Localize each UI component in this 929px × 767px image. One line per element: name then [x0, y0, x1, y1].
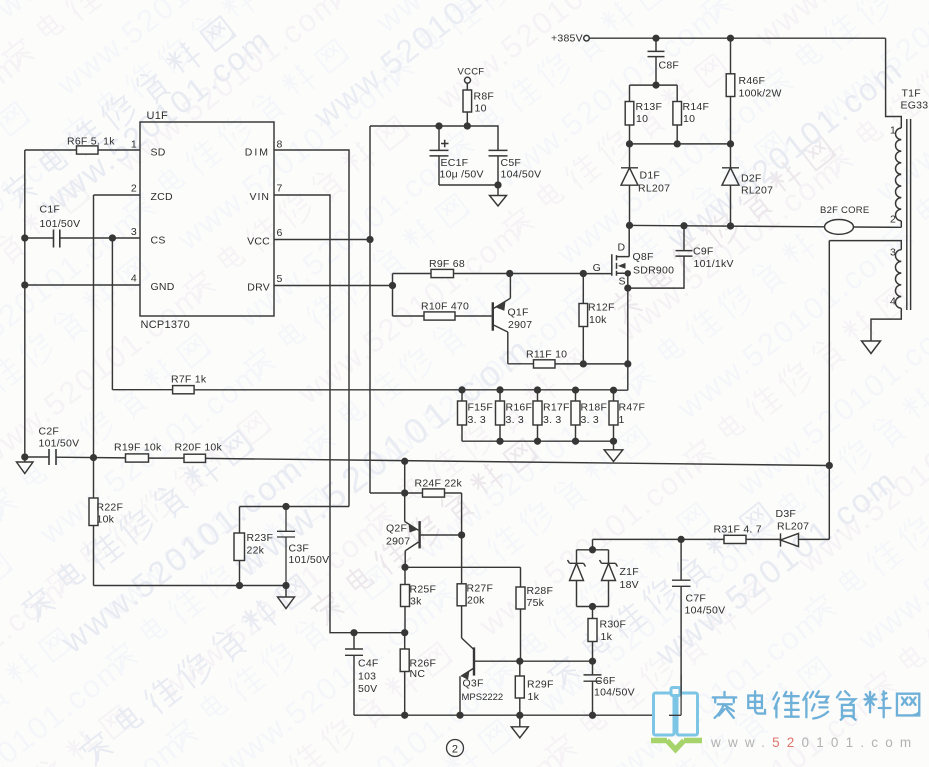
resistor R6F [77, 146, 99, 154]
IC U1F NCP1370 [140, 122, 274, 316]
resistor R11F [534, 360, 556, 368]
node drain [627, 223, 633, 229]
ground below secondary [862, 341, 881, 354]
svg-text:RL207: RL207 [777, 521, 809, 533]
svg-text:EG33: EG33 [901, 100, 929, 112]
node VCC [367, 237, 373, 243]
node R12F top [580, 271, 586, 277]
svg-text:GND: GND [151, 281, 175, 293]
svg-text:DRV: DRV [247, 282, 270, 294]
capacitor C5F [489, 150, 508, 185]
svg-text:2907: 2907 [386, 536, 410, 548]
svg-text:7: 7 [277, 183, 283, 195]
node sense line right end [826, 463, 832, 469]
svg-text:G: G [593, 262, 601, 274]
svg-text:S: S [619, 276, 626, 288]
svg-text:D: D [618, 242, 626, 254]
svg-text:CS: CS [151, 235, 166, 247]
node R16F top [497, 387, 503, 393]
svg-text:T1F: T1F [902, 88, 921, 100]
node R12F bottom [580, 361, 586, 367]
node Q2F base / R27F top [459, 532, 465, 538]
svg-text:R6F 5. 1k: R6F 5. 1k [67, 136, 115, 148]
wire R13F/R14F top rail [630, 85, 678, 101]
node D2F bottom [728, 223, 734, 229]
wire R22F vertical [93, 458, 95, 586]
resistor R7F [173, 386, 195, 394]
svg-text:VCC: VCC [247, 236, 270, 248]
svg-text:D1F: D1F [640, 170, 661, 182]
svg-text:R29F: R29F [527, 679, 554, 691]
wire C7F lower lead over logo [669, 675, 681, 715]
svg-text:Q2F: Q2F [386, 523, 407, 535]
ground below C3F [278, 586, 295, 609]
node R18F top [573, 387, 579, 393]
resistor R19F [126, 454, 149, 462]
node R24F tap on sense line [402, 458, 408, 464]
node zener bottom tap [590, 604, 596, 610]
wire CS vertical to R7F line [111, 238, 113, 390]
svg-text:RL207: RL207 [638, 183, 670, 195]
svg-text:DIM: DIM [245, 147, 270, 159]
wire primary bottom lead pin2 [900, 221, 902, 228]
svg-text:10: 10 [475, 103, 487, 115]
resistor R8F [466, 83, 468, 126]
secondary winding pin3-pin4 [895, 250, 901, 309]
svg-text:10k: 10k [97, 514, 115, 526]
resistor R23F [234, 533, 245, 561]
svg-text:F15F: F15F [468, 402, 494, 414]
wire source down to R11F line [614, 288, 628, 390]
diode D3F RL207 [781, 533, 799, 546]
svg-text:104/50V: 104/50V [594, 687, 635, 699]
wire zener top rail [577, 539, 609, 563]
svg-text:75k: 75k [527, 597, 545, 609]
svg-text:R24F 22k: R24F 22k [415, 478, 463, 490]
capacitor C2F [49, 449, 56, 465]
svg-text:R19F 10k: R19F 10k [114, 442, 162, 454]
svg-text:C4F: C4F [358, 658, 379, 670]
svg-text:NC: NC [410, 668, 426, 680]
node ZCD/R22F tap [91, 455, 97, 461]
node C8F bottom split [653, 82, 659, 88]
svg-text:D2F: D2F [741, 173, 762, 185]
wire R24F tap vertical [404, 461, 406, 493]
node C6F top / R30F bottom [590, 658, 596, 664]
svg-text:R10F 470: R10F 470 [421, 301, 469, 313]
ground below C5F [490, 185, 507, 206]
wire left rail [24, 150, 26, 457]
wire primary top lead [886, 38, 902, 128]
capacitor C7F [672, 539, 691, 715]
mosfet Q8F SDR900 [583, 225, 629, 275]
svg-text:104/50V: 104/50V [685, 605, 726, 617]
capacitor C8F [648, 38, 665, 85]
svg-text:R16F: R16F [506, 402, 533, 414]
svg-text:MPS2222: MPS2222 [462, 692, 504, 703]
svg-text:101/50V: 101/50V [289, 554, 330, 566]
svg-text:R18F: R18F [581, 402, 608, 414]
svg-text:B2F CORE: B2F CORE [820, 205, 870, 216]
svg-text:R46F: R46F [739, 75, 766, 87]
svg-text:R30F: R30F [600, 619, 627, 631]
svg-text:R25F: R25F [410, 584, 437, 596]
svg-text:Z1F: Z1F [620, 566, 639, 578]
terminal VCCF [465, 77, 471, 83]
wire VIN net: pin7 right, down, to C4F line [274, 195, 405, 633]
node R17F top [535, 387, 541, 393]
node R25F/R26F junction [402, 630, 408, 636]
node C7F top [678, 537, 684, 543]
wire R7F line and sense-resistor top rail [112, 389, 613, 391]
svg-text:2: 2 [131, 183, 137, 195]
svg-text:VCCF: VCCF [458, 67, 485, 78]
wire DIM net: pin8 right then down to C3F top line [274, 150, 349, 507]
node R18F bottom [573, 438, 579, 444]
svg-text:3. 3: 3. 3 [581, 414, 600, 426]
wire source to C9F bottom [628, 256, 684, 288]
svg-text:R31F 4. 7: R31F 4. 7 [714, 524, 762, 536]
wire pin1 SD to R6F [25, 149, 140, 151]
node C9F top [681, 223, 687, 229]
svg-text:10: 10 [636, 113, 648, 125]
svg-text:R17F: R17F [543, 402, 570, 414]
transistor Q2F 2907 [418, 521, 420, 548]
node R9F right [507, 271, 513, 277]
logo book icon [654, 688, 698, 736]
wire bank vertical leads top [462, 390, 614, 401]
wire secondary bottom lead pin4 [871, 308, 901, 341]
svg-text:18V: 18V [620, 579, 639, 591]
svg-text:R27F: R27F [467, 583, 494, 595]
svg-text:101/50V: 101/50V [40, 218, 81, 230]
svg-text:SDR900: SDR900 [633, 265, 674, 277]
wire zener bottom rail [577, 606, 609, 608]
wire VCC to R24F line [370, 493, 462, 584]
resistor R14F [673, 102, 682, 126]
wire secondary top lead pin3 [829, 241, 901, 250]
svg-text:C7F: C7F [686, 593, 707, 605]
node R17F bottom [535, 438, 541, 444]
wire bottom rail [354, 714, 681, 716]
svg-text:R9F 68: R9F 68 [429, 258, 465, 270]
node R26F bottom [402, 712, 408, 718]
wire bank bottom rail [462, 425, 614, 441]
resistor R30F [592, 607, 594, 662]
svg-text:3k: 3k [410, 596, 422, 608]
zener D right of Z1F [600, 560, 618, 607]
svg-text:8: 8 [277, 139, 283, 151]
svg-text:R14F: R14F [683, 101, 710, 113]
ground below C2F [17, 462, 34, 474]
svg-text:1: 1 [131, 139, 137, 151]
transistor Q1F 2907 [492, 302, 494, 330]
resistor F15F [458, 401, 467, 425]
node R16F bottom [497, 438, 503, 444]
svg-text:R7F 1k: R7F 1k [171, 374, 207, 386]
svg-text:1: 1 [619, 414, 625, 426]
svg-text:6: 6 [277, 227, 283, 239]
resistor R9F [431, 269, 454, 277]
wire pin2 ZCD [94, 195, 141, 458]
wire C2F to ground [25, 457, 49, 462]
svg-text:4: 4 [131, 273, 137, 285]
wire R22F bottom line to R23F/C3F [94, 585, 287, 587]
svg-text:103: 103 [358, 671, 376, 683]
resistor R18F [571, 401, 580, 425]
svg-text:R20F 10k: R20F 10k [175, 442, 223, 454]
node left rail GND [22, 282, 28, 288]
svg-text:10μ /50V: 10μ /50V [440, 169, 484, 181]
svg-text:ZCD: ZCD [151, 191, 173, 203]
node D1F top [627, 141, 633, 147]
node C6F bottom [590, 712, 596, 718]
wire R13F/R14F bottom rail [630, 125, 731, 144]
node R47F top [611, 387, 617, 393]
svg-text:VIN: VIN [249, 191, 270, 203]
node C3F top [283, 504, 289, 510]
mosfet Q8F arrow [618, 263, 626, 269]
resistor R10F [424, 312, 455, 320]
svg-text:R12F: R12F [588, 302, 615, 314]
svg-text:R23F: R23F [247, 532, 274, 544]
capacitor EC1F polarized [430, 126, 449, 185]
svg-text:10: 10 [683, 113, 695, 125]
svg-text:R13F: R13F [636, 101, 663, 113]
node D2F top [728, 141, 734, 147]
svg-text:NCP1370: NCP1370 [141, 319, 190, 331]
node source [625, 285, 631, 291]
node R23F bottom [237, 583, 243, 589]
zener D left of Z1F [568, 560, 586, 607]
wire C3F top line [240, 507, 350, 534]
node left rail CS [22, 235, 28, 241]
svg-text:100k/2W: 100k/2W [739, 88, 782, 100]
bead B2F CORE [825, 220, 854, 235]
svg-text:1k: 1k [528, 691, 540, 703]
svg-text:101/1kV: 101/1kV [694, 258, 734, 270]
svg-text:Q1F: Q1F [508, 307, 529, 319]
wire pin3 CS [25, 237, 140, 239]
svg-text:3: 3 [131, 226, 137, 238]
wire R11F line [508, 363, 628, 365]
primary winding pin1-pin2 [896, 128, 902, 221]
svg-text:2: 2 [890, 214, 896, 226]
wire R31F line [593, 538, 830, 540]
capacitor C1F [54, 230, 60, 248]
svg-text:EC1F: EC1F [441, 157, 469, 169]
node C2F left [22, 454, 28, 460]
capacitor C9F [676, 226, 693, 256]
transistor Q3F MPS2222 [473, 647, 475, 675]
svg-text:5: 5 [277, 273, 283, 285]
resistor R46F [730, 38, 732, 144]
node C5F bottom [495, 182, 501, 188]
node R29F bottom [517, 712, 523, 718]
logo text [713, 691, 920, 720]
logo green underline [651, 741, 702, 750]
resistor R28F [520, 609, 522, 661]
wire base node to C6F/R30F [520, 660, 593, 662]
terminal +385V [584, 35, 590, 41]
wire secondary feedback vertical [828, 241, 830, 540]
node C8F top [653, 35, 659, 41]
wire drain rail to transformer pin2 [630, 225, 902, 227]
wire R23F bottom lead [239, 561, 241, 586]
resistor R25F [404, 567, 406, 632]
node DRV [390, 283, 396, 289]
svg-text:4: 4 [890, 296, 896, 308]
wire R10F base line [393, 315, 492, 317]
svg-text:C8F: C8F [659, 60, 680, 72]
wire VCC net: pin6 right, vertical up to VCCF rail and down to R24F [274, 126, 370, 493]
svg-text:3. 3: 3. 3 [543, 414, 562, 426]
resistor R20F [184, 454, 206, 462]
svg-text:RL207: RL207 [741, 185, 773, 197]
resistor R24F [423, 489, 445, 497]
svg-text:10k: 10k [589, 314, 607, 326]
svg-text:R22F: R22F [97, 502, 124, 514]
page number 2 circled [447, 740, 464, 757]
node R47F bottom [611, 438, 617, 444]
svg-text:R8F: R8F [474, 91, 495, 103]
wire EC1F bottom to C5F bottom [439, 184, 498, 186]
svg-text:50V: 50V [358, 683, 377, 695]
wire VCCF rail [370, 126, 498, 151]
resistor R27F [461, 606, 463, 638]
resistor R31F [724, 535, 746, 543]
wire pin4 GND [25, 284, 140, 286]
diode D2F RL207 [722, 144, 739, 226]
svg-text:2: 2 [452, 744, 458, 756]
svg-text:C9F: C9F [693, 246, 714, 258]
node R24F left / Q2F emitter [402, 490, 408, 496]
node Q3F emitter bottom [457, 712, 463, 718]
svg-text:1: 1 [890, 125, 896, 137]
svg-text:20k: 20k [467, 595, 485, 607]
node Q2F collector / R25F top [402, 564, 408, 570]
node source/R11F [625, 361, 631, 367]
resistor R22F [89, 498, 98, 526]
node R46F top [728, 35, 734, 41]
node C4F top [351, 630, 357, 636]
node CS junction [110, 235, 116, 241]
node R14F bottom [674, 141, 680, 147]
svg-text:104/50V: 104/50V [501, 169, 542, 181]
svg-text:3: 3 [890, 247, 896, 259]
node Q8F source top [625, 271, 630, 276]
svg-text:www.520101.com: www.520101.com [710, 735, 918, 750]
svg-text:D3F: D3F [776, 508, 797, 520]
node R8F bottom [464, 123, 470, 129]
svg-text:3. 3: 3. 3 [468, 414, 487, 426]
resistor R12F [582, 274, 584, 364]
transformer core [907, 119, 911, 310]
svg-text:C2F: C2F [39, 426, 60, 438]
svg-text:C5F: C5F [501, 157, 522, 169]
wire +385V rail [589, 37, 885, 39]
node F15F top [459, 387, 465, 393]
resistor R17F [533, 401, 542, 425]
svg-text:1k: 1k [601, 631, 613, 643]
svg-text:R28F: R28F [527, 585, 554, 597]
svg-text:Q3F: Q3F [463, 678, 484, 690]
node Q3F base / R28F bottom / R29F top [517, 658, 523, 664]
svg-text:Q8F: Q8F [633, 251, 654, 263]
ground below R29F [511, 715, 528, 738]
svg-text:R11F 10: R11F 10 [526, 349, 567, 361]
capacitor C4F [345, 633, 363, 716]
resistor R29F [519, 661, 521, 715]
ground below R47F [604, 441, 623, 461]
resistor R47F [609, 401, 618, 425]
svg-text:SD: SD [151, 147, 166, 159]
diode D1F RL207 [621, 144, 638, 226]
resistor R13F [625, 102, 634, 126]
node zener top tap [590, 547, 596, 553]
svg-text:R47F: R47F [619, 402, 646, 414]
svg-text:+385V: +385V [551, 33, 583, 45]
svg-text:3. 3: 3. 3 [506, 414, 525, 426]
wire DRV pin5 [274, 274, 393, 317]
svg-text:C6F: C6F [595, 675, 616, 687]
capacitor C3F [277, 507, 295, 586]
node C3F bottom [283, 583, 289, 589]
node EC1F top [436, 123, 442, 129]
wire ZCD sense line (long, slightly sloped) [56, 457, 829, 465]
svg-text:2907: 2907 [508, 319, 532, 331]
svg-text:22k: 22k [247, 545, 265, 557]
wire collector node line to R28F [405, 567, 521, 587]
svg-text:C3F: C3F [289, 543, 310, 555]
wire R9F gate line [393, 273, 584, 275]
svg-text:U1F: U1F [147, 110, 169, 122]
capacitor C6F [584, 661, 602, 715]
resistor R26F [404, 633, 406, 716]
resistor R16F [496, 401, 505, 425]
svg-text:101/50V: 101/50V [39, 438, 80, 450]
svg-text:C1F: C1F [40, 204, 61, 216]
